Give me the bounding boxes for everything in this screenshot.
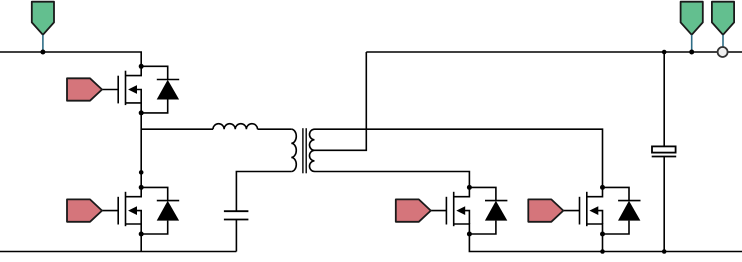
node drain of M4 (600, 185, 605, 190)
transformer T1 primary winding (291, 129, 296, 171)
wire output top rail (366, 51, 742, 53)
capacitor C1 (224, 211, 249, 219)
node source of M1 (139, 110, 144, 115)
body diode of M2 (141, 187, 179, 234)
terminal port circle (718, 47, 728, 57)
body diode of M1 (141, 66, 179, 113)
mosfet M4 (563, 187, 602, 234)
node input rail junction (40, 50, 45, 55)
wire switch node to inductor (141, 128, 213, 130)
gate signal flag gate M3 (396, 199, 431, 221)
wire C2 to ground rail (663, 157, 665, 252)
inductor L1 (213, 124, 258, 130)
terminal flag Vin (32, 2, 54, 52)
mosfet M2 (102, 187, 141, 234)
wire output rail to C2 (663, 52, 665, 146)
node source of M3 (467, 232, 472, 237)
wire M4 source to ground rail (602, 234, 604, 252)
node C2 bottom on ground rail (662, 249, 667, 254)
wire secondary top to M4 drain (315, 129, 603, 187)
wire ground rail left (0, 251, 236, 253)
capacitor C2 polarized (652, 146, 677, 156)
terminal flag Vout (681, 2, 703, 52)
wire input top rail (0, 52, 141, 66)
gate signal flag gate M4 (528, 199, 563, 221)
body diode of M4 (603, 187, 641, 234)
wire inductor to transformer (258, 128, 292, 130)
node drain of M3 (467, 185, 472, 190)
node source of M2 (139, 232, 144, 237)
transformer T1 secondary winding (309, 129, 314, 171)
mosfet M1 (102, 66, 141, 113)
wire primary bottom to C1 (236, 172, 291, 212)
terminal flag Vout sense (712, 2, 734, 47)
node M4 source on ground rail (600, 249, 605, 254)
node C2 top on output rail (662, 50, 667, 55)
transformer T1 core (303, 128, 306, 173)
wire switch node vertical (140, 113, 142, 187)
mosfet M3 (430, 187, 469, 234)
node Vout flag on rail (689, 50, 694, 55)
body diode of M3 (469, 187, 507, 234)
wire M2 source to ground rail (140, 234, 142, 252)
wire C1 to ground rail (235, 220, 237, 252)
wire secondary bottom to M3 drain (315, 172, 470, 188)
node drain of M1 (139, 64, 144, 69)
gate signal flag gate M1 (67, 78, 102, 100)
wire center tap to output rail (315, 52, 367, 150)
gate signal flag gate M2 (67, 199, 102, 221)
node drain of M2 (139, 185, 144, 190)
wire M3 source to ground rail (469, 234, 742, 252)
node switch midpoint (139, 170, 144, 175)
node source of M4 (600, 232, 605, 237)
